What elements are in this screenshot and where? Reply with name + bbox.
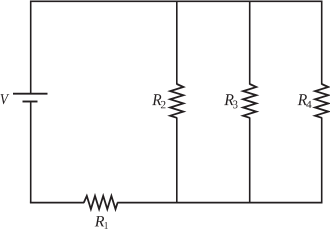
label R2 subscript 2 xyxy=(161,101,166,108)
wire: left vertical, top wire to battery positive plate xyxy=(30,1,32,94)
wire: R2 branch upper, top wire to zigzag xyxy=(176,1,178,85)
resistor R4 zigzag xyxy=(315,84,328,118)
label R1 letter R xyxy=(95,216,105,226)
wire: left vertical, battery to bottom-left corner xyxy=(30,102,32,202)
wire: R2 branch lower, zigzag to bottom wire xyxy=(176,117,178,203)
label R2 letter R xyxy=(152,94,161,105)
label R3 letter R xyxy=(224,94,234,105)
resistor R1 zigzag xyxy=(84,196,118,209)
wire: R3 branch lower, zigzag to bottom wire xyxy=(249,117,251,203)
battery V : short negative plate xyxy=(23,101,38,103)
wire: R3 branch upper, top wire to zigzag xyxy=(249,1,251,85)
wire: bottom horizontal, left corner to R1 xyxy=(30,202,84,204)
label R4 subscript 4 xyxy=(306,101,311,108)
wire: R4 branch upper (right edge), top wire to zigzag xyxy=(321,1,323,85)
battery V : long positive plate xyxy=(13,93,48,95)
label R3 subscript 3 xyxy=(233,101,237,109)
resistor R2 zigzag xyxy=(170,84,183,118)
label R4 letter R xyxy=(298,94,307,105)
wire: bottom horizontal, R1 to bottom-right corner xyxy=(117,202,322,204)
wire: top horizontal from battery branch to R4 branch xyxy=(31,0,323,2)
resistor R3 zigzag xyxy=(243,84,256,118)
label V xyxy=(1,94,10,104)
wire: R4 branch lower, zigzag to bottom-right corner xyxy=(321,117,323,203)
label R1 subscript 1 xyxy=(105,222,108,229)
